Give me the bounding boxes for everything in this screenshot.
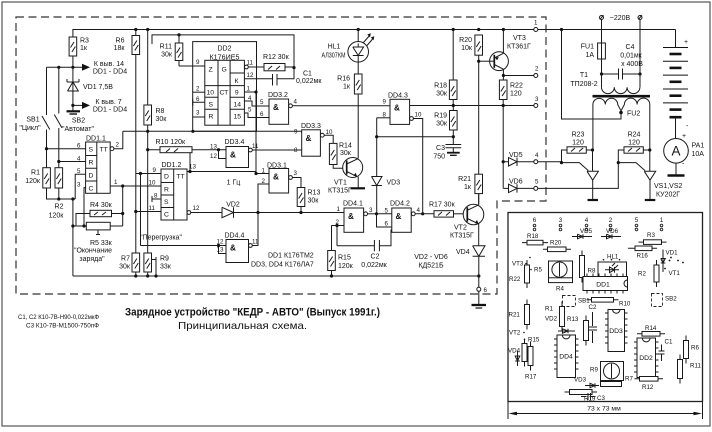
DD2 pin 2 stub — [193, 86, 205, 93]
svg-text:К выв. 7: К выв. 7 — [95, 99, 121, 106]
svg-text:К: К — [235, 78, 239, 85]
capacitor C4 — [600, 20, 643, 80]
svg-text:R22: R22 — [509, 276, 521, 283]
svg-text:4: 4 — [535, 152, 539, 159]
pcb VT1 — [664, 257, 684, 277]
DD1.1 pin 5 wire — [75, 168, 85, 199]
pcb C1 — [659, 339, 673, 362]
DD2 pin 9 wire — [179, 59, 205, 66]
svg-text:R8: R8 — [588, 268, 596, 275]
svg-text:VD5: VD5 — [580, 228, 593, 235]
svg-text:R23: R23 — [572, 132, 585, 139]
pcb VD4 — [508, 348, 521, 367]
svg-text:R15: R15 — [338, 255, 351, 262]
svg-text:HL1: HL1 — [328, 44, 341, 51]
resistor R11 — [160, 33, 183, 66]
resistor R24 — [618, 132, 651, 163]
svg-text:6: 6 — [77, 143, 81, 150]
svg-text:R16: R16 — [637, 253, 649, 260]
gate DD4.1 — [336, 201, 379, 233]
gate DD3.2 — [268, 92, 298, 124]
svg-text:2: 2 — [609, 217, 613, 224]
svg-text:G: G — [222, 67, 227, 74]
svg-text:+: + — [684, 39, 688, 46]
svg-text:VT3: VT3 — [512, 261, 524, 268]
DD2 pin 3 stub — [193, 110, 205, 118]
diode VD3 — [372, 118, 401, 214]
pcb VT3 — [512, 257, 531, 268]
svg-text:30к: 30к — [161, 52, 173, 59]
resistor R15 — [328, 226, 354, 277]
svg-text:VD6: VD6 — [509, 179, 523, 186]
pcb SB1 — [563, 296, 591, 307]
svg-text:S: S — [164, 199, 169, 206]
ground under VD1 — [67, 105, 81, 114]
pcb R18 — [522, 233, 548, 245]
svg-text:5: 5 — [77, 168, 81, 175]
transistor VT1 — [328, 158, 363, 195]
svg-text:&: & — [396, 212, 402, 221]
svg-text:750: 750 — [433, 154, 445, 161]
pcb C3 — [581, 393, 605, 402]
svg-text:1к: 1к — [80, 45, 88, 52]
svg-text:SB2: SB2 — [72, 118, 85, 125]
svg-text:3: 3 — [196, 110, 200, 117]
svg-text:АЛ307КМ: АЛ307КМ — [322, 53, 346, 60]
pcb VD1 — [661, 250, 679, 273]
ground at VT1 emitter — [351, 187, 366, 189]
svg-text:С3: С3 — [436, 145, 445, 152]
DD1.2 pin 9 wire — [136, 167, 161, 175]
svg-text:DD1 К176ТМ2: DD1 К176ТМ2 — [268, 253, 314, 260]
svg-text:R6: R6 — [116, 38, 125, 45]
svg-text:R11: R11 — [160, 44, 172, 51]
svg-text:R12 30к: R12 30к — [263, 54, 290, 61]
svg-text:6: 6 — [484, 287, 488, 294]
pcb VD6 — [601, 228, 621, 239]
pcb R2 — [638, 260, 659, 287]
svg-text:9: 9 — [294, 129, 298, 136]
svg-text:А: А — [671, 144, 680, 159]
switch SB2 Автомат — [54, 67, 94, 167]
pcb R11 — [678, 355, 702, 384]
svg-text:&: & — [348, 212, 354, 221]
svg-text:1к: 1к — [464, 184, 472, 191]
resistor R22 — [499, 76, 523, 106]
svg-text:S: S — [89, 147, 94, 154]
svg-text:18к: 18к — [114, 45, 126, 52]
svg-text:R4: R4 — [556, 286, 564, 293]
svg-text:SB2: SB2 — [665, 296, 677, 303]
svg-text:"Цикл": "Цикл" — [19, 125, 41, 132]
svg-text:C1: C1 — [665, 339, 673, 346]
pcb R1 — [545, 302, 565, 332]
svg-text:3: 3 — [369, 207, 373, 214]
pin5 wire to VS2 gate — [538, 161, 645, 188]
svg-text:КТ361Г: КТ361Г — [507, 44, 531, 51]
svg-text:R17: R17 — [525, 374, 537, 381]
svg-text:5: 5 — [260, 99, 264, 106]
svg-text:R3: R3 — [80, 38, 89, 45]
transistor VT2 — [450, 194, 484, 246]
svg-text:С2: С2 — [371, 254, 380, 261]
svg-text:C: C — [89, 185, 94, 192]
pcb DD4 — [554, 335, 579, 378]
pcb R19 — [565, 390, 598, 403]
svg-text:D: D — [89, 173, 94, 180]
svg-text:9: 9 — [153, 167, 157, 174]
svg-text:VD1: VD1 — [666, 250, 679, 257]
svg-text:DD3: DD3 — [609, 328, 623, 335]
svg-text:30к: 30к — [436, 91, 448, 98]
DD2 pin 15/5 wire — [244, 107, 269, 119]
pcb R10 — [587, 298, 631, 308]
svg-text:R9: R9 — [590, 367, 598, 374]
svg-text:DD4.4: DD4.4 — [225, 233, 245, 240]
pcb DD3 — [605, 310, 628, 352]
resistor R12 — [263, 54, 296, 71]
svg-text:4: 4 — [585, 217, 589, 224]
svg-text:&: & — [394, 104, 400, 113]
pcb R4 — [549, 278, 573, 293]
gate DD3.4 — [210, 139, 302, 187]
switch SB1 Цикл — [19, 67, 49, 167]
svg-text:&: & — [230, 151, 236, 160]
pcb R3 — [639, 232, 667, 244]
node: К выв.7 arrow — [71, 99, 127, 114]
svg-text:S: S — [209, 102, 214, 109]
resistor R21 — [458, 174, 482, 204]
svg-text:R18: R18 — [527, 233, 539, 240]
svg-text:DD1.1: DD1.1 — [86, 136, 106, 143]
pin2 wire — [502, 66, 539, 78]
svg-text:2: 2 — [535, 66, 539, 73]
svg-text:КТ315Г: КТ315Г — [328, 188, 352, 195]
svg-text:VD3: VD3 — [387, 180, 401, 187]
pcb dimension 73x73 — [508, 402, 703, 420]
svg-text:Принципиальная схема.: Принципиальная схема. — [178, 320, 307, 332]
pcb R22 — [509, 260, 530, 288]
DD4.1 pin2 wire — [337, 226, 344, 246]
svg-text:1А: 1А — [585, 52, 594, 59]
IC DD2 K176IE5 — [193, 42, 257, 132]
svg-text:FU2: FU2 — [627, 111, 640, 118]
fuse FU1 — [581, 20, 606, 75]
pcb R7 — [601, 376, 634, 387]
svg-text:6: 6 — [260, 111, 264, 118]
capacitor C1 — [273, 68, 323, 86]
trunk R20 to R21 — [478, 61, 480, 174]
resistor R10 — [146, 139, 226, 153]
DD1.1 pin 3 wire — [77, 181, 86, 226]
svg-text:R17 30к: R17 30к — [429, 202, 456, 209]
svg-text:1: 1 — [337, 206, 341, 213]
svg-text:4: 4 — [294, 99, 298, 106]
svg-text:VT2: VT2 — [454, 225, 467, 232]
svg-text:10: 10 — [149, 180, 156, 187]
svg-text:11: 11 — [149, 205, 156, 212]
svg-text:R22: R22 — [510, 83, 523, 90]
zener VD1 — [67, 67, 113, 105]
svg-text:4: 4 — [248, 95, 252, 102]
svg-text:6: 6 — [533, 217, 537, 224]
svg-text:6: 6 — [196, 96, 200, 103]
svg-text:6: 6 — [385, 221, 389, 228]
svg-text:R21: R21 — [458, 176, 471, 183]
svg-text:VD2 - VD6: VD2 - VD6 — [414, 254, 448, 261]
svg-text:VD6: VD6 — [606, 228, 619, 235]
svg-text:DD2: DD2 — [639, 355, 653, 362]
pcb DD1 — [583, 274, 628, 294]
svg-text:заряда": заряда" — [79, 256, 105, 263]
svg-text:30к: 30к — [156, 116, 168, 123]
resistor R19 — [434, 106, 457, 137]
diode VD6 — [503, 179, 539, 193]
svg-text:"Автомат": "Автомат" — [62, 126, 94, 133]
svg-text:R13: R13 — [567, 316, 579, 323]
pcb R15 — [522, 337, 540, 367]
svg-text:R11: R11 — [690, 363, 701, 370]
resistor R23 — [562, 132, 595, 163]
svg-text:13: 13 — [217, 247, 224, 254]
svg-text:C2: C2 — [589, 304, 597, 311]
svg-text:R2: R2 — [55, 204, 64, 211]
pcb R17 — [525, 342, 537, 381]
svg-text:1 Гц: 1 Гц — [227, 180, 241, 187]
pcb VT2 — [509, 330, 525, 337]
svg-text:&: & — [306, 134, 312, 143]
svg-text:C3: C3 — [597, 395, 605, 402]
wire DD3.2 out to DD4.3 pin9 — [292, 105, 390, 107]
svg-text:33к: 33к — [160, 264, 172, 271]
svg-text:R10: R10 — [619, 301, 631, 308]
svg-text:4: 4 — [77, 155, 81, 162]
pcb R13 — [567, 316, 589, 346]
svg-text:1: 1 — [262, 168, 266, 175]
pcb R21 — [509, 300, 530, 330]
svg-text:DD3.2: DD3.2 — [268, 92, 288, 99]
DD1.1 pin 4 wire — [57, 155, 85, 163]
thyristor VS1 — [587, 150, 598, 200]
svg-text:120: 120 — [628, 140, 640, 147]
resistor R18 — [434, 30, 457, 106]
svg-text:Z: Z — [209, 67, 213, 74]
svg-text:13: 13 — [189, 164, 196, 171]
svg-text:VD1 7,5В: VD1 7,5В — [83, 84, 113, 91]
svg-text:13: 13 — [210, 144, 217, 151]
capacitor C2 — [337, 230, 391, 270]
svg-text:R20: R20 — [550, 240, 562, 247]
DD2 sub-rail wire — [152, 35, 294, 68]
svg-text:14: 14 — [234, 102, 242, 109]
svg-text:11: 11 — [252, 143, 259, 150]
svg-text:DD1: DD1 — [596, 282, 610, 289]
svg-text:120: 120 — [510, 91, 522, 98]
svg-text:R10 120к: R10 120к — [156, 139, 186, 146]
svg-text:R12: R12 — [642, 384, 654, 391]
svg-text:5: 5 — [248, 107, 252, 114]
svg-text:VT3: VT3 — [513, 35, 526, 42]
svg-text:R4 30к: R4 30к — [90, 202, 113, 209]
resistor R7 — [119, 253, 139, 276]
svg-text:VD4: VD4 — [456, 249, 470, 256]
svg-text:R20: R20 — [459, 37, 472, 44]
svg-text:9: 9 — [235, 90, 239, 97]
diode VD4 — [456, 246, 485, 276]
svg-text:1к: 1к — [343, 84, 351, 91]
svg-text:C: C — [164, 212, 169, 219]
svg-text:VT2: VT2 — [509, 330, 521, 337]
~220V terminals — [600, 15, 643, 22]
svg-text:ТТ: ТТ — [100, 147, 108, 154]
ammeter PA1 — [664, 133, 705, 176]
pcb R12 — [635, 377, 664, 392]
svg-text:120к: 120к — [338, 263, 354, 270]
svg-text:~220В: ~220В — [610, 15, 631, 22]
gate DD4.3 — [377, 93, 425, 216]
svg-text:30к: 30к — [340, 150, 352, 157]
svg-text:DD3.4: DD3.4 — [225, 139, 245, 146]
svg-text:+: + — [682, 133, 686, 140]
svg-text:9: 9 — [383, 99, 387, 106]
pcb VD3 — [574, 377, 599, 388]
DD1.1 output 1 wire to DD1.2 pin10 — [110, 179, 161, 188]
svg-text:R9: R9 — [160, 256, 169, 263]
resistor R6 — [114, 30, 140, 55]
svg-text:8: 8 — [154, 193, 158, 200]
svg-text:3: 3 — [294, 170, 298, 177]
svg-text:R16: R16 — [337, 76, 350, 83]
svg-text:VD3: VD3 — [574, 377, 587, 384]
node: К выв.14 arrow — [47, 61, 128, 76]
svg-text:R13: R13 — [308, 190, 321, 197]
svg-text:R24: R24 — [628, 132, 641, 139]
svg-text:R1: R1 — [31, 170, 40, 177]
svg-text:30к: 30к — [436, 121, 448, 128]
svg-text:DD4.3: DD4.3 — [388, 93, 408, 100]
svg-text:R19: R19 — [434, 113, 447, 120]
IC DD1.1 trigger — [86, 136, 111, 194]
v2 trunk wire — [140, 174, 142, 246]
resistor R2 — [49, 168, 65, 220]
DD2 pin 6 stub — [193, 96, 205, 106]
out2 net wire to DD3.3 pin9 — [123, 130, 302, 133]
svg-text:30к: 30к — [308, 198, 320, 205]
resistor R4 — [76, 186, 124, 226]
svg-text:Зарядное устройство "КЕДР - АВ: Зарядное устройство "КЕДР - АВТО" (Выпус… — [125, 307, 380, 319]
svg-text:R1: R1 — [545, 306, 553, 313]
pin4 wire to VS1 gate — [538, 161, 589, 171]
svg-text:&: & — [273, 173, 279, 182]
svg-text:DD1 - DD4: DD1 - DD4 — [93, 107, 127, 114]
svg-text:4: 4 — [417, 207, 421, 214]
svg-text:СТ: СТ — [220, 90, 229, 97]
fuse FU2 center tap — [562, 30, 641, 120]
svg-text:12: 12 — [247, 72, 254, 79]
svg-text:DD3, DD4 К176ЛА7: DD3, DD4 К176ЛА7 — [251, 262, 314, 269]
gate DD4.2 — [377, 201, 435, 233]
DD2 pin 12 wire — [244, 72, 272, 79]
pcb R6 — [684, 336, 700, 364]
PCB pin pads row — [533, 217, 664, 231]
transformer T1 — [570, 72, 650, 150]
DD1.1 pin 6 wire — [45, 143, 86, 151]
gate DD4.4 — [217, 213, 259, 263]
PCB layout box — [508, 213, 703, 402]
svg-text:КТ315Г: КТ315Г — [450, 233, 474, 240]
svg-text:R18: R18 — [434, 83, 447, 90]
resistor R13 — [297, 188, 320, 213]
svg-text:R6: R6 — [691, 345, 699, 352]
pcb VD2 — [545, 316, 575, 334]
svg-text:11: 11 — [247, 60, 254, 67]
svg-text:DD4.1: DD4.1 — [343, 201, 363, 208]
svg-text:5: 5 — [635, 217, 639, 224]
svg-text:HL1: HL1 — [607, 254, 619, 261]
pcb SB2 — [652, 294, 678, 307]
pin3 net wire — [410, 96, 539, 108]
rail junction dots — [134, 28, 137, 31]
pcb R9 trimmer — [590, 362, 624, 381]
svg-text:120: 120 — [572, 140, 584, 147]
svg-text:Т1: Т1 — [580, 72, 588, 79]
svg-text:R14: R14 — [339, 143, 352, 150]
svg-text:КУ202Г: КУ202Г — [656, 192, 680, 199]
trunk to VD5/VD6 — [502, 106, 504, 189]
svg-text:DD2: DD2 — [217, 46, 231, 53]
diode VD2 — [222, 202, 344, 218]
svg-text:1: 1 — [660, 217, 664, 224]
svg-text:R3: R3 — [647, 232, 655, 239]
pcb VD5 — [572, 228, 593, 239]
svg-text:DD4: DD4 — [559, 354, 573, 361]
DD2 pin 14/4 wire — [244, 95, 269, 106]
resistor R14 — [329, 143, 352, 169]
battery GB — [663, 30, 689, 139]
svg-text:К выв. 14: К выв. 14 — [94, 61, 124, 68]
svg-text:"Окончание: "Окончание — [74, 248, 112, 255]
trimmer R5 — [71, 222, 122, 263]
svg-text:R5: R5 — [534, 267, 542, 274]
svg-text:&: & — [230, 244, 236, 253]
svg-text:VD5: VD5 — [509, 152, 523, 159]
wire R1/R2 bottoms — [47, 188, 76, 276]
DD2 pin 1 wire to trunk — [244, 86, 257, 174]
wire VD3 node to R19/C3 — [375, 135, 455, 138]
svg-text:R: R — [164, 186, 169, 193]
svg-text:3: 3 — [535, 96, 539, 103]
trimmer R9 — [144, 150, 172, 276]
gate DD3.3 — [294, 123, 333, 156]
DD1.2 output 12 — [187, 205, 222, 214]
pcb HL1 — [598, 254, 627, 278]
svg-text:VT1: VT1 — [669, 270, 681, 277]
resistor R8 — [144, 30, 167, 150]
svg-text:FU1: FU1 — [581, 44, 594, 51]
svg-text:VS1,VS2: VS1,VS2 — [654, 183, 683, 190]
svg-text:х 400В: х 400В — [621, 61, 643, 68]
svg-text:КД521Б: КД521Б — [418, 263, 443, 270]
svg-text:"Перегрузка": "Перегрузка" — [140, 235, 182, 242]
DD1.2 pin 11 wire — [134, 205, 161, 213]
svg-text:1: 1 — [534, 20, 538, 27]
thyristor VS2 — [644, 150, 655, 200]
svg-text:120к: 120к — [25, 178, 41, 185]
svg-text:30к: 30к — [119, 264, 131, 271]
svg-text:R7: R7 — [625, 376, 633, 383]
svg-text:R21: R21 — [509, 312, 521, 319]
svg-text:&: & — [273, 103, 279, 112]
